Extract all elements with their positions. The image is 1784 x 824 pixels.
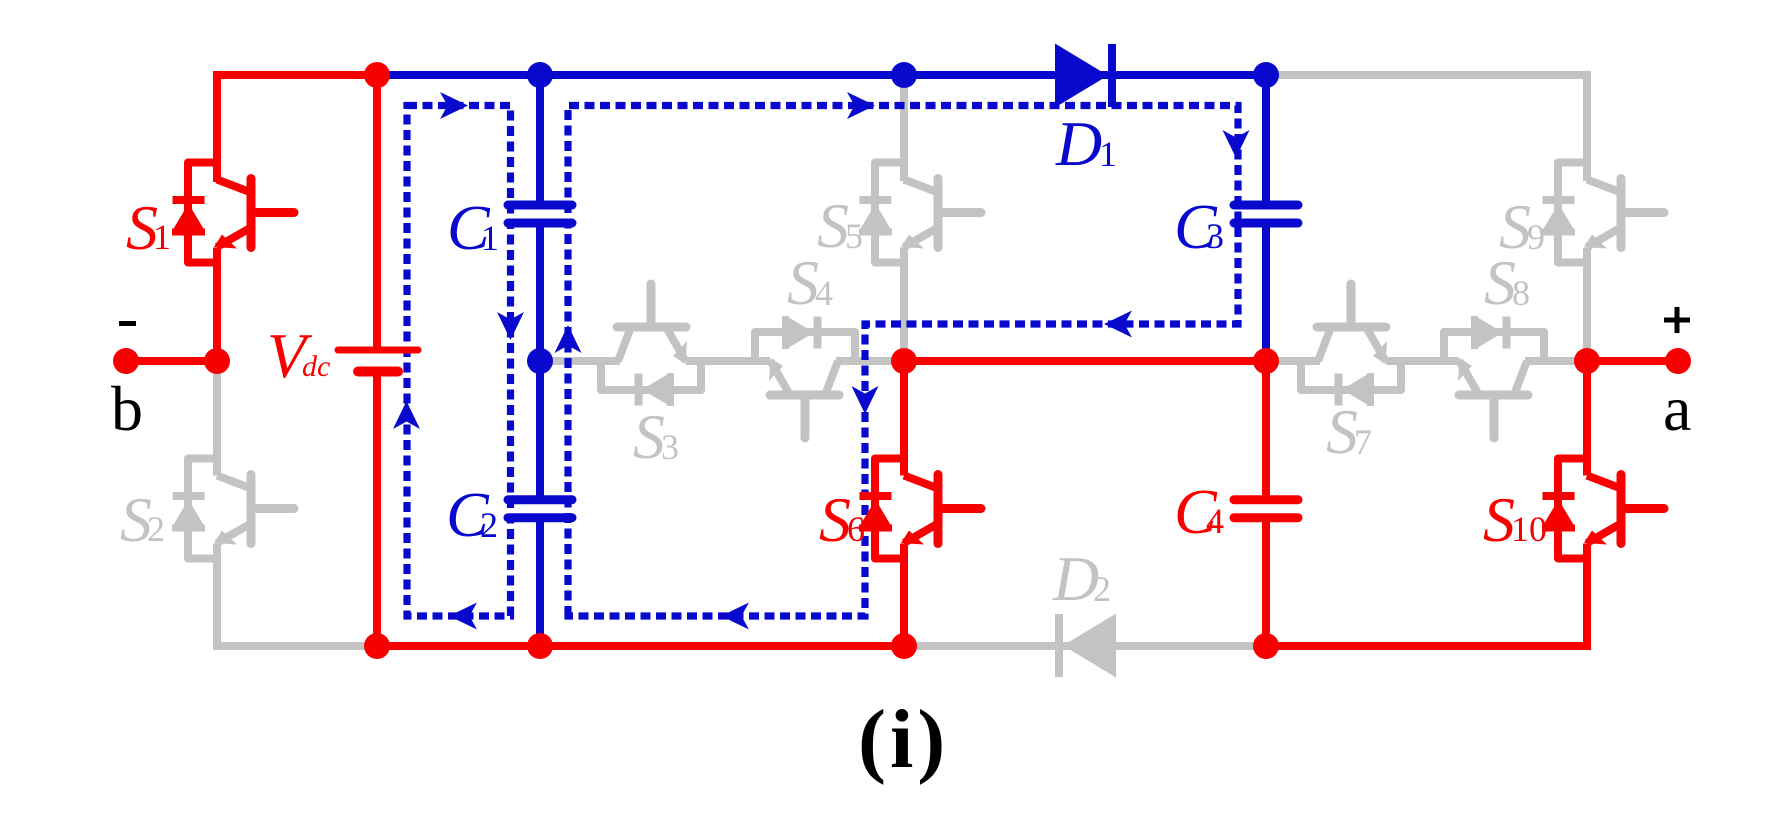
svg-text:8: 8 xyxy=(1512,273,1530,313)
svg-text:dc: dc xyxy=(302,350,330,383)
svg-text:1: 1 xyxy=(1099,134,1117,174)
svg-text:9: 9 xyxy=(1527,217,1545,257)
svg-text:4: 4 xyxy=(815,273,833,313)
svg-text:3: 3 xyxy=(661,427,679,467)
svg-text:1: 1 xyxy=(481,218,499,258)
svg-text:b: b xyxy=(111,373,143,444)
svg-text:2: 2 xyxy=(1093,569,1111,609)
svg-text:(i): (i) xyxy=(858,693,949,786)
svg-text:10: 10 xyxy=(1511,509,1547,549)
svg-text:3: 3 xyxy=(1206,216,1224,256)
svg-text:2: 2 xyxy=(147,509,165,549)
svg-text:1: 1 xyxy=(153,217,171,257)
svg-text:D: D xyxy=(1055,108,1102,179)
svg-text:5: 5 xyxy=(845,216,863,256)
svg-text:7: 7 xyxy=(1354,422,1372,462)
svg-text:6: 6 xyxy=(847,509,865,549)
svg-text:a: a xyxy=(1663,373,1691,444)
svg-text:4: 4 xyxy=(1206,501,1224,541)
svg-text:2: 2 xyxy=(480,505,498,545)
